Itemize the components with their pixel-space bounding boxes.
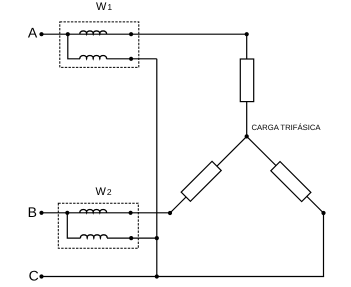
junction dot line A to load [245, 32, 249, 36]
wire W1 voltage coil to vertical bus [106, 58, 156, 60]
junction dot bus to line C [155, 274, 159, 278]
junction dot voltage bus tie [155, 236, 159, 240]
svg-text:C: C [29, 268, 39, 284]
wattmeter W1 dashed box [60, 22, 139, 68]
W1 current coil (on line A) [80, 31, 107, 34]
junction dot W2 voltage coil right [129, 236, 133, 240]
junction dot right diagonal end [321, 211, 325, 215]
wire phase A drop to load [246, 34, 248, 136]
node B terminal dot [39, 211, 43, 215]
wire W1 voltage branch down [68, 34, 80, 59]
svg-text:W: W [96, 186, 107, 198]
junction dot W1 voltage coil right [129, 57, 133, 61]
resistor load phase A (vertical) [240, 59, 253, 102]
svg-text:A: A [28, 24, 38, 40]
resistor load phase B (diagonal) [181, 161, 221, 201]
W2 current coil (on line B) [80, 210, 107, 213]
junction dot W2 left on line B [65, 211, 69, 215]
node C terminal dot [39, 274, 43, 278]
star node dot [245, 134, 249, 138]
W1 voltage coil [80, 56, 107, 59]
junction dot W2 current coil right [129, 211, 133, 215]
svg-text:CARGA TRIFÁSICA: CARGA TRIFÁSICA [252, 123, 322, 132]
junction dot W1 left on line A [66, 32, 70, 36]
W2 voltage coil [80, 235, 107, 238]
wire W2 voltage branch down [67, 213, 80, 238]
wire line B horizontal [42, 212, 171, 214]
wire line C horizontal [42, 276, 325, 278]
svg-text:2: 2 [107, 187, 112, 197]
resistor load phase C (diagonal) [271, 162, 311, 202]
svg-text:W: W [96, 1, 107, 13]
junction dot W1 current coil right [129, 32, 133, 36]
junction dot line B to load [168, 211, 172, 215]
wire load phase B diagonal [170, 136, 247, 213]
wire right side down to line C [323, 213, 325, 277]
node A terminal dot [39, 32, 43, 36]
svg-text:1: 1 [107, 2, 112, 12]
wattmeter W2 dashed box [58, 203, 138, 248]
wire W2 voltage coil to vertical bus [107, 237, 157, 239]
wire load phase C diagonal [247, 136, 324, 213]
svg-text:B: B [28, 204, 37, 220]
wire vertical bus (W1 voltage to line C) [156, 59, 158, 277]
wire line A horizontal [42, 33, 247, 35]
